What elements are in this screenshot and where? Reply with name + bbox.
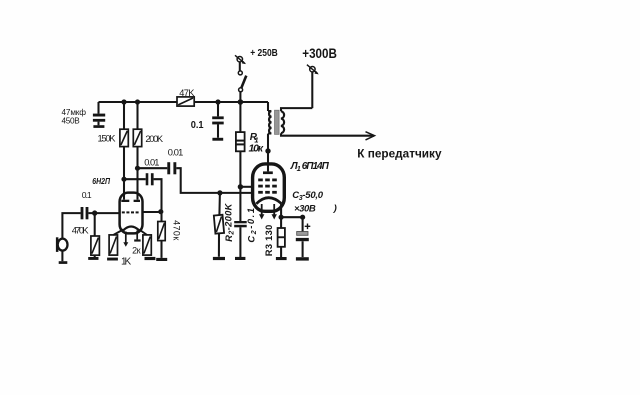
svg-text:1K: 1K <box>121 256 132 267</box>
svg-text:150K: 150K <box>98 134 117 144</box>
svg-text:0.1: 0.1 <box>82 190 92 200</box>
svg-text:200K: 200K <box>145 134 163 144</box>
svg-text:С3-50,0: С3-50,0 <box>292 190 324 202</box>
svg-text:0.1: 0.1 <box>191 120 204 131</box>
svg-text:0.01: 0.01 <box>144 157 159 167</box>
svg-text:450В: 450В <box>62 116 81 125</box>
svg-text:2к: 2к <box>132 246 140 256</box>
svg-text:470K: 470K <box>72 225 90 235</box>
svg-text:R3 130: R3 130 <box>264 224 274 256</box>
svg-text:Л1 6П14П: Л1 6П14П <box>290 161 330 173</box>
svg-text:+300В: +300В <box>302 46 337 62</box>
svg-text:): ) <box>333 203 337 214</box>
svg-text:C2-0.1: C2-0.1 <box>246 206 257 242</box>
svg-text:×30В: ×30В <box>294 204 316 215</box>
svg-text:+ 250В: + 250В <box>250 48 278 59</box>
svg-text:6Н2П: 6Н2П <box>92 176 110 186</box>
svg-text:К передатчику: К передатчику <box>357 147 442 161</box>
svg-text:0.01: 0.01 <box>168 148 184 158</box>
svg-text:R2-200K: R2-200K <box>224 202 235 241</box>
svg-text:47K: 47K <box>179 88 195 98</box>
svg-text:470к: 470к <box>172 220 182 241</box>
svg-text:10к: 10к <box>249 143 264 155</box>
